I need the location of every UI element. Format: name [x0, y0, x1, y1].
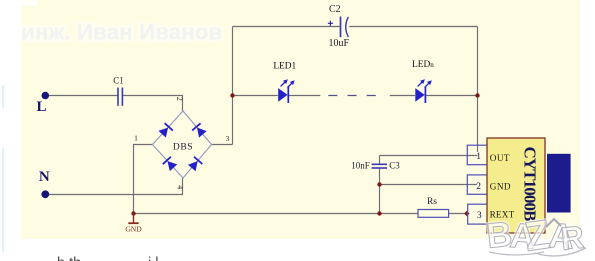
- wire: C3 top feed to pin 1: [380, 155, 478, 157]
- wire: N terminal to bridge pin 4: [49, 178, 183, 195]
- svg-text:i l: i l: [148, 256, 158, 261]
- white corner at sheet top-left: [21, 0, 37, 6]
- capacitor C1: [118, 88, 122, 106]
- bridge diode top-left: [158, 123, 173, 138]
- terminal N: [41, 190, 49, 198]
- svg-text:4: 4: [175, 185, 184, 189]
- svg-text:3: 3: [226, 134, 230, 143]
- svg-text:1: 1: [476, 152, 481, 162]
- svg-text:2: 2: [175, 97, 184, 101]
- svg-text:b th: b th: [57, 256, 81, 261]
- wire: right vertical riser down to pin 1: [477, 27, 479, 153]
- wire: C3 riser upper: [379, 156, 381, 164]
- wire: solid before LEDn: [390, 95, 415, 97]
- svg-text:OUT: OUT: [490, 153, 510, 163]
- junction at left riser / LED row: [230, 93, 234, 97]
- svg-text:инж. Иван Иванов: инж. Иван Иванов: [21, 20, 222, 45]
- wire: C3 riser lower through junction to ground rail: [379, 168, 381, 213]
- junction C3 / pin2 feed: [377, 182, 381, 186]
- svg-text:10nF: 10nF: [351, 161, 370, 171]
- junction C3 / ground rail: [377, 211, 381, 215]
- wire: C1 to bridge pin 2: [123, 96, 183, 112]
- svg-text:N: N: [39, 169, 50, 185]
- wire: LED row from left riser to LED1: [233, 95, 278, 97]
- wire: LEDn cathode to right riser: [426, 95, 478, 97]
- bridge diode bottom-left: [163, 157, 178, 172]
- svg-text:R: R: [559, 219, 586, 257]
- resistor Rs: [418, 210, 449, 218]
- watermark left edge mark upper: [2, 85, 4, 108]
- svg-text:LEDn: LEDn: [412, 60, 434, 70]
- bridge rectifier DBS diamond: [153, 111, 212, 178]
- svg-text:CYT1000B: CYT1000B: [521, 147, 540, 222]
- wire: top rail left of C2: [233, 26, 340, 28]
- pin 1 port box: [467, 145, 487, 165]
- svg-text:L: L: [36, 99, 46, 115]
- svg-text:GND: GND: [125, 225, 142, 234]
- ground GND symbol: [125, 214, 142, 234]
- wire: bridge pin 3 lead: [212, 144, 233, 146]
- wire: feed to pin 2: [380, 184, 478, 186]
- svg-text:LED1: LED1: [273, 61, 296, 71]
- capacitor C3: [372, 164, 387, 168]
- bridge diode bottom-right: [188, 157, 203, 172]
- LEDn: [415, 79, 432, 103]
- svg-text:1: 1: [134, 134, 138, 143]
- svg-text:GND: GND: [490, 182, 511, 192]
- wire: top rail right of C2: [349, 26, 477, 28]
- junction at pin 3 entry: [464, 211, 469, 216]
- bridge diode top-right: [192, 123, 207, 138]
- svg-text:C3: C3: [389, 161, 400, 171]
- terminal L: [42, 92, 50, 100]
- IC U1 CYT1000B body: [487, 138, 545, 233]
- pin 2 port box: [467, 175, 487, 194]
- junction at right riser / LED row: [475, 93, 479, 97]
- svg-text:C1: C1: [113, 76, 124, 86]
- pin 3 port box: [468, 204, 488, 224]
- wire: L terminal to C1: [48, 95, 118, 97]
- svg-text:Rs: Rs: [427, 197, 437, 207]
- watermark BAZAR logo: [485, 211, 586, 260]
- svg-text:3: 3: [477, 211, 482, 221]
- junction at ground rail left: [131, 211, 135, 215]
- wire: Rs to pin 3: [449, 213, 467, 215]
- LED1: [278, 79, 295, 103]
- navy rectangle right of IC: [547, 154, 571, 213]
- wire: LED1 cathode to dashed section: [289, 95, 321, 97]
- svg-text:2: 2: [476, 182, 481, 192]
- svg-text:10uF: 10uF: [329, 38, 350, 49]
- wire: bridge pin 1 lead and down to ground rail: [134, 145, 153, 214]
- wire: bottom ground rail to Rs: [134, 213, 418, 215]
- wire: dashed continuation between LED1 and LEDn: [328, 95, 378, 97]
- capacitor C2 (polarized): [328, 17, 348, 38]
- svg-text:C2: C2: [329, 4, 341, 15]
- watermark left edge mark lower: [2, 148, 4, 252]
- svg-text:DBS: DBS: [173, 142, 193, 152]
- wire: left vertical riser (bridge pin 3 to top rail): [232, 27, 234, 145]
